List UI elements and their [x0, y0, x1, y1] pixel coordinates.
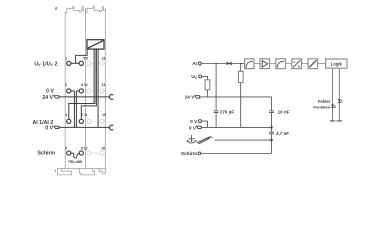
svg-text:3: 3 [65, 113, 67, 117]
svg-text:14: 14 [102, 83, 106, 87]
svg-text:270 pF: 270 pF [220, 110, 235, 115]
svg-text:AI: AI [192, 61, 197, 67]
svg-text:Schirm: Schirm [181, 151, 197, 157]
svg-text:UV 1/UV 2: UV 1/UV 2 [34, 61, 57, 67]
svg-text:0 V: 0 V [189, 125, 197, 131]
svg-text:0 V: 0 V [190, 119, 198, 125]
svg-text:24 V: 24 V [42, 95, 53, 101]
svg-text:16: 16 [101, 147, 105, 151]
svg-text:UV: UV [191, 74, 197, 80]
svg-text:750-485: 750-485 [68, 160, 82, 164]
svg-text:6 10: 6 10 [81, 83, 88, 87]
svg-text:4,7 nF: 4,7 nF [276, 131, 289, 136]
svg-text:24 V: 24 V [185, 95, 196, 101]
svg-text:1: 1 [65, 57, 67, 61]
svg-text:0 V: 0 V [46, 89, 54, 95]
svg-text:13: 13 [101, 57, 105, 61]
svg-text:10 nF: 10 nF [278, 109, 290, 114]
svg-text:7 11: 7 11 [81, 113, 88, 117]
svg-text:Logik: Logik [331, 61, 343, 66]
svg-text:15: 15 [102, 113, 106, 117]
svg-text:4: 4 [65, 147, 67, 151]
svg-text:8 12: 8 12 [81, 147, 88, 151]
svg-text:Schirm: Schirm [38, 151, 56, 157]
svg-text:Funktion: Funktion [313, 105, 330, 110]
svg-text:0 V: 0 V [45, 125, 53, 131]
svg-text:2: 2 [65, 83, 67, 87]
svg-text:Fehler: Fehler [318, 99, 331, 104]
svg-text:5 9: 5 9 [83, 57, 88, 61]
